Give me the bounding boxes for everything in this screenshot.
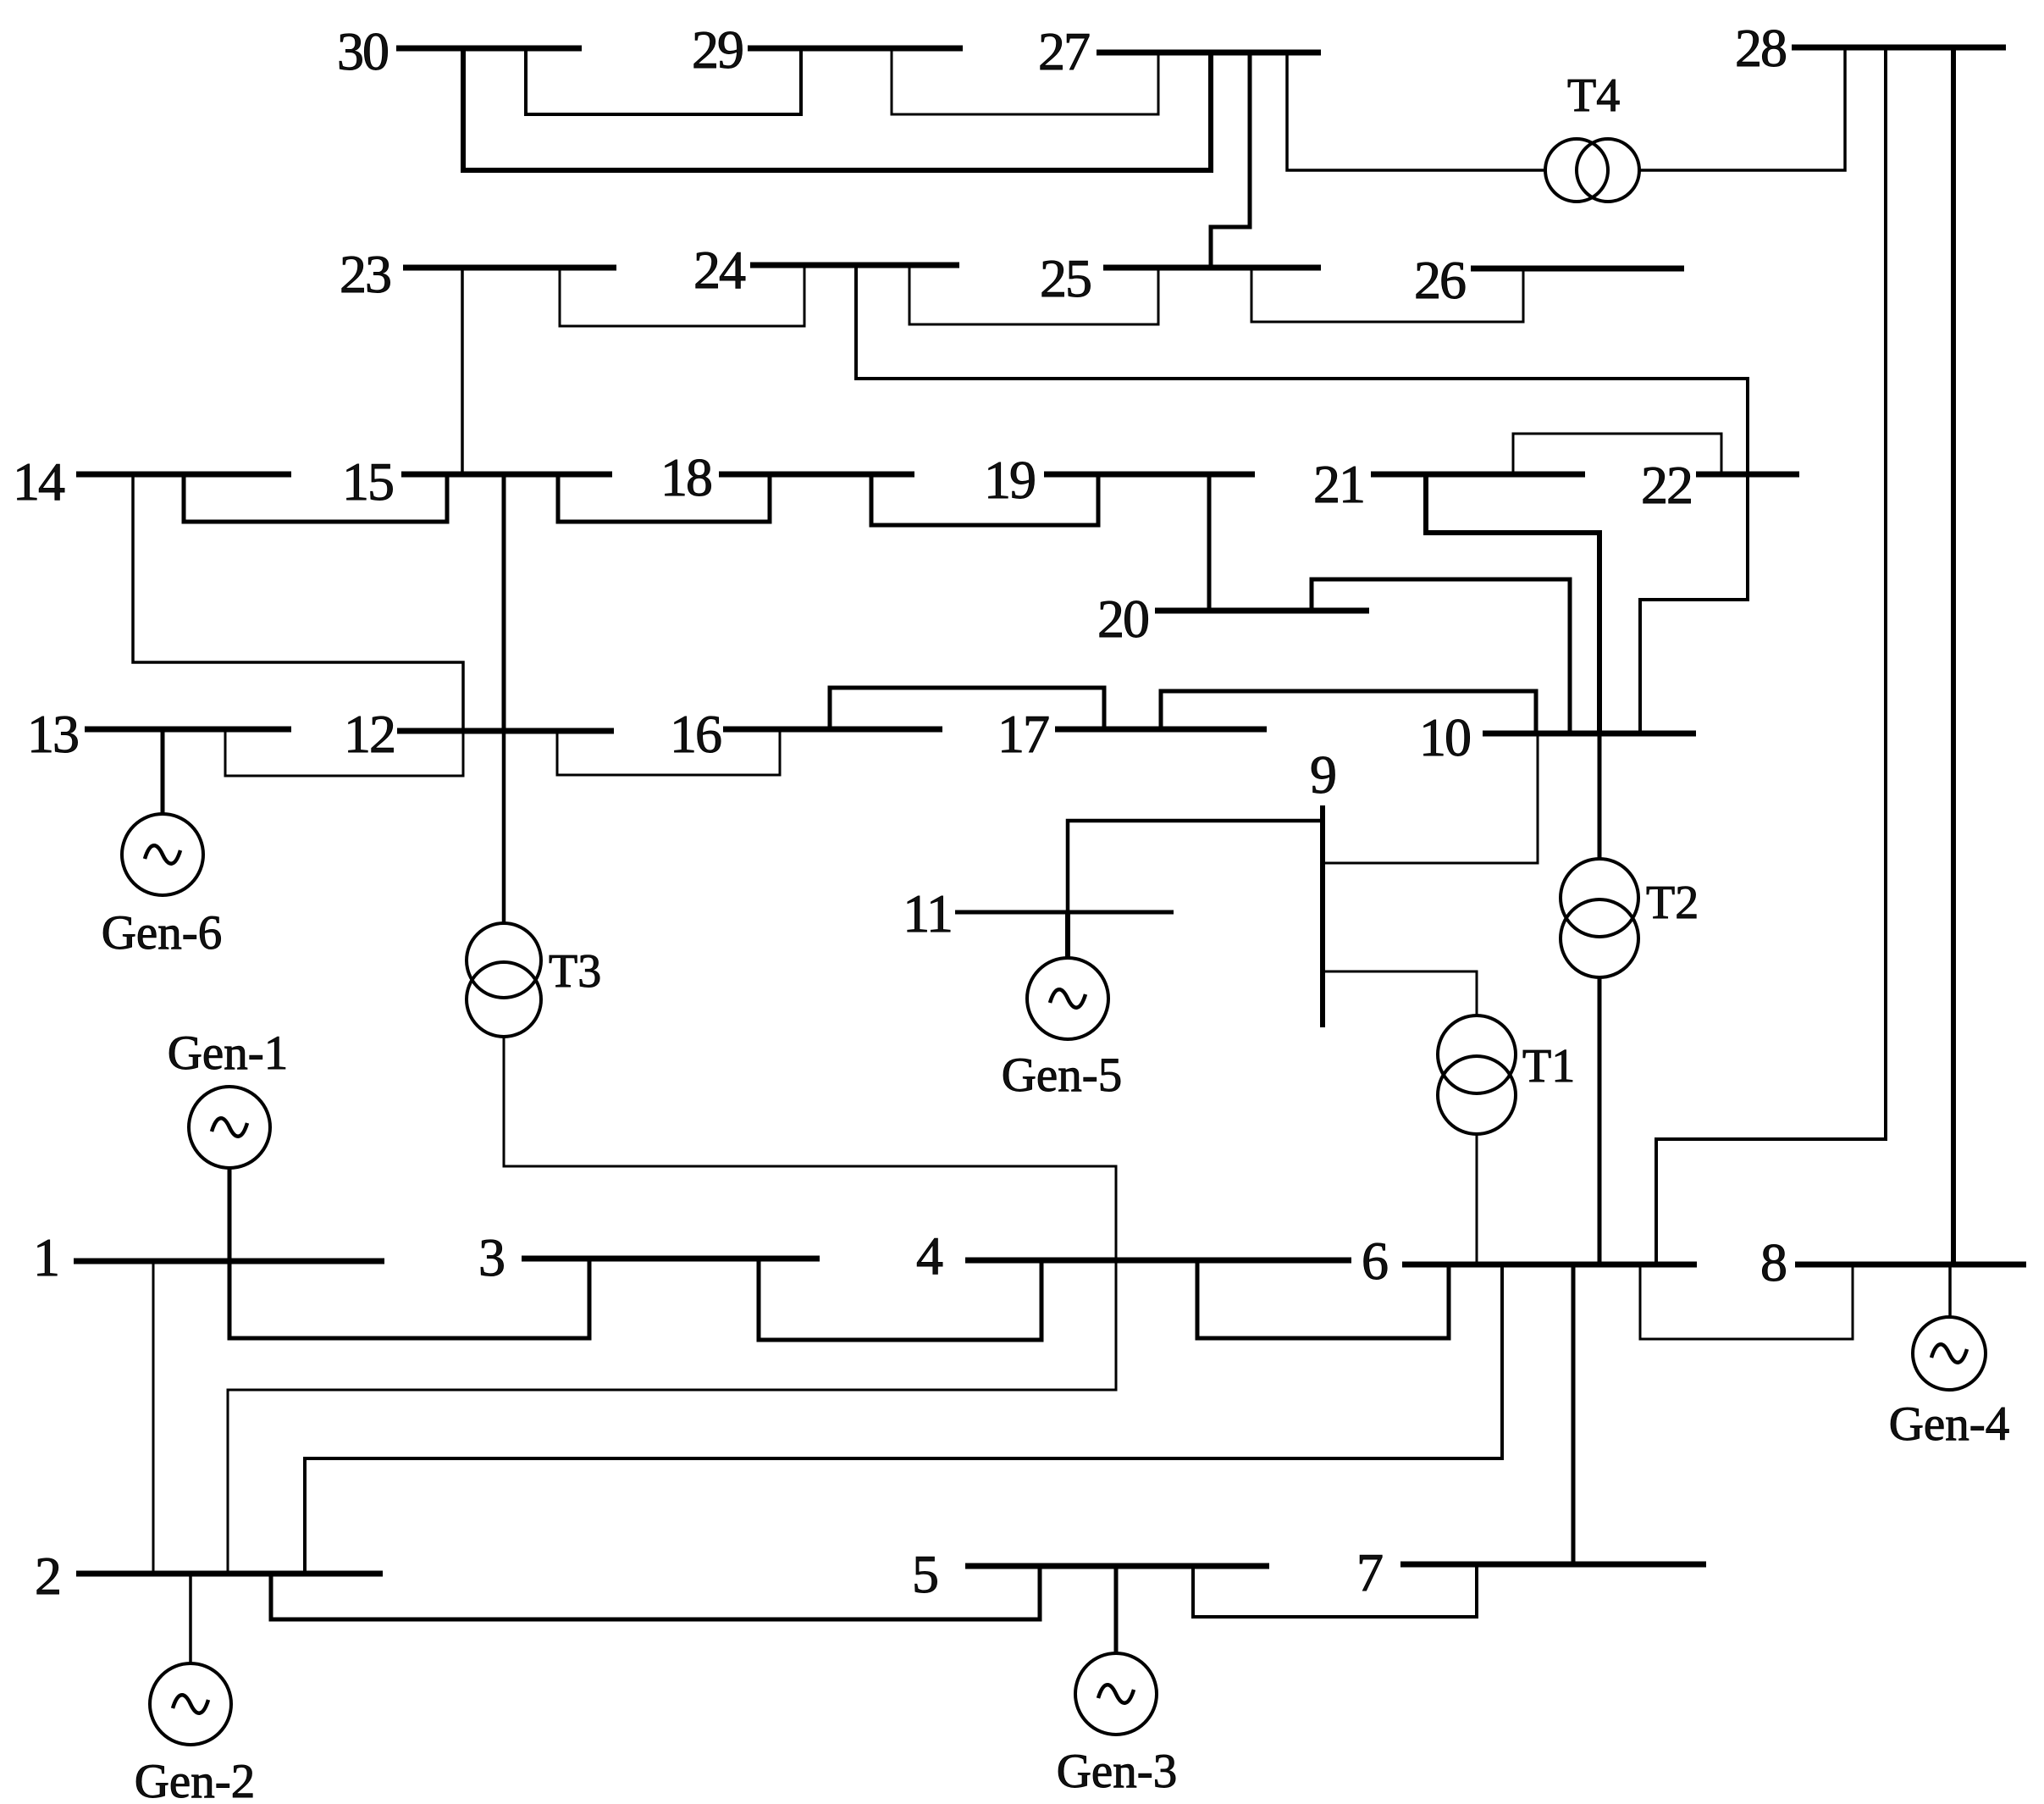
bus 8 [1760,1232,2026,1292]
wire 15-12 [502,474,506,731]
svg-text:28: 28 [1735,18,1786,78]
svg-text:15: 15 [342,451,393,512]
wire 20-10 [1312,579,1570,733]
wire 1-2 [152,1261,155,1574]
wire 2-5 [271,1566,1040,1619]
svg-text:Gen-6: Gen-6 [102,906,222,960]
wire T4-28 [1639,47,1845,170]
bus 16 [670,704,942,764]
svg-text:13: 13 [27,704,78,764]
wire 6-7 [1572,1264,1576,1564]
transformer T4 [1545,69,1639,202]
wire 14-12 [133,474,463,731]
svg-text:20: 20 [1097,589,1148,649]
generator Gen-1 [168,1027,288,1261]
bus 9 (vertical) [1310,744,1335,1027]
wire 18-19 [871,474,1098,525]
wire 21-10 [1426,474,1599,733]
wire 2-6 [305,1264,1502,1574]
wire 27-25 [1211,53,1250,268]
wire 9-10 [1323,733,1538,863]
generator Gen-5 [1002,912,1122,1102]
svg-text:17: 17 [997,704,1049,764]
svg-text:2: 2 [35,1546,60,1606]
bus 23 [340,244,616,304]
svg-text:25: 25 [1040,248,1091,308]
wire 10-T2 [1598,733,1602,860]
generator Gen-4 [1889,1264,2009,1451]
svg-text:30: 30 [337,21,388,81]
bus 25 [1040,248,1321,308]
generator Gen-6 [102,729,222,960]
svg-text:9: 9 [1310,744,1335,805]
wire 25-26 [1251,268,1523,322]
wire 14-15 [184,474,447,522]
wire 15-18 [558,474,770,522]
svg-text:23: 23 [340,244,390,304]
wire 9-T1 [1323,971,1477,1015]
wire 12-13 [225,729,463,776]
svg-text:16: 16 [670,704,721,764]
wire 24-25 [909,265,1158,324]
svg-text:29: 29 [692,19,743,80]
wire 12-16 [557,729,780,775]
wire 29-27 [892,48,1158,114]
svg-text:Gen-4: Gen-4 [1889,1397,2009,1451]
bus 13 [27,704,291,764]
bus 17 [997,704,1267,764]
svg-text:T3: T3 [549,945,601,998]
wire 3-4 [759,1259,1041,1340]
bus 11 [903,883,1174,944]
bus 20 [1097,589,1369,649]
bus 27 [1038,21,1321,81]
svg-text:5: 5 [912,1544,937,1604]
svg-text:24: 24 [693,240,745,300]
svg-text:27: 27 [1038,21,1090,81]
wire T2-6 [1598,977,1602,1264]
wire T1-6 [1476,1133,1478,1264]
bus 12 [344,704,614,764]
transformer T3 [467,731,601,1037]
bus 18 [660,447,914,507]
svg-text:Gen-1: Gen-1 [168,1027,288,1080]
bus 14 [13,451,291,512]
transformer T2 [1561,859,1699,977]
wire 30-29 [526,48,801,114]
wire T3-4 [504,1036,1116,1260]
svg-text:11: 11 [903,883,952,944]
wire 28-8 vertical [1951,47,1956,1264]
wire 24-22 [856,265,1748,733]
bus 21 [1313,454,1585,514]
svg-text:22: 22 [1641,455,1692,515]
bus 24 [693,240,959,300]
wire 6-8 [1640,1264,1853,1339]
bus 2 [35,1546,383,1606]
svg-text:21: 21 [1313,454,1364,514]
transformer T1 [1438,1015,1575,1134]
bus 1 [33,1227,384,1287]
bus 26 [1414,250,1684,310]
bus 10 [1419,707,1696,767]
bus 4 [916,1226,1351,1286]
svg-text:Gen-3: Gen-3 [1057,1745,1177,1798]
bus 15 [342,451,612,512]
bus 29 [692,19,963,80]
bus 7 [1356,1542,1706,1602]
wire 19-20 [1207,474,1212,611]
svg-text:T1: T1 [1522,1040,1575,1093]
svg-text:10: 10 [1419,707,1470,767]
wire 28-6 vertical [1884,47,1887,1139]
bus 5 [912,1544,1269,1604]
wire 23-24 [560,265,804,326]
svg-text:6: 6 [1362,1231,1388,1291]
wire 1-3 [229,1259,589,1338]
wire 6-28 [1656,1139,1887,1264]
wire 17-10 [1161,691,1536,733]
svg-text:18: 18 [660,447,711,507]
svg-text:T4: T4 [1567,69,1620,122]
bus 19 [984,450,1255,510]
svg-text:7: 7 [1356,1542,1383,1602]
svg-text:26: 26 [1414,250,1466,310]
svg-text:19: 19 [984,450,1035,510]
generator Gen-2 [135,1574,255,1804]
svg-text:Gen-2: Gen-2 [135,1755,255,1804]
bus 28 [1735,18,2006,78]
bus 30 [337,21,582,81]
svg-text:T2: T2 [1646,877,1699,929]
wire 5-7 [1193,1564,1477,1617]
generator Gen-3 [1057,1566,1177,1798]
wire 21-22 [1513,434,1721,474]
wire 15-23 [461,268,464,474]
wire 4-6 [1197,1260,1449,1338]
svg-text:12: 12 [344,704,395,764]
wire 9-11 [1068,821,1323,958]
bus 3 [478,1227,820,1287]
svg-text:Gen-5: Gen-5 [1002,1049,1122,1102]
wire 30-27 [463,48,1211,170]
wire 27 to T4 [1287,53,1544,170]
svg-text:3: 3 [478,1227,504,1287]
bus 22 [1641,455,1799,515]
bus 6 [1362,1231,1697,1291]
svg-text:14: 14 [13,451,64,512]
svg-text:1: 1 [33,1227,58,1287]
svg-text:8: 8 [1760,1232,1786,1292]
wire 2-4 [228,1260,1116,1574]
wire 16-17 [830,688,1104,729]
svg-text:4: 4 [916,1226,942,1286]
